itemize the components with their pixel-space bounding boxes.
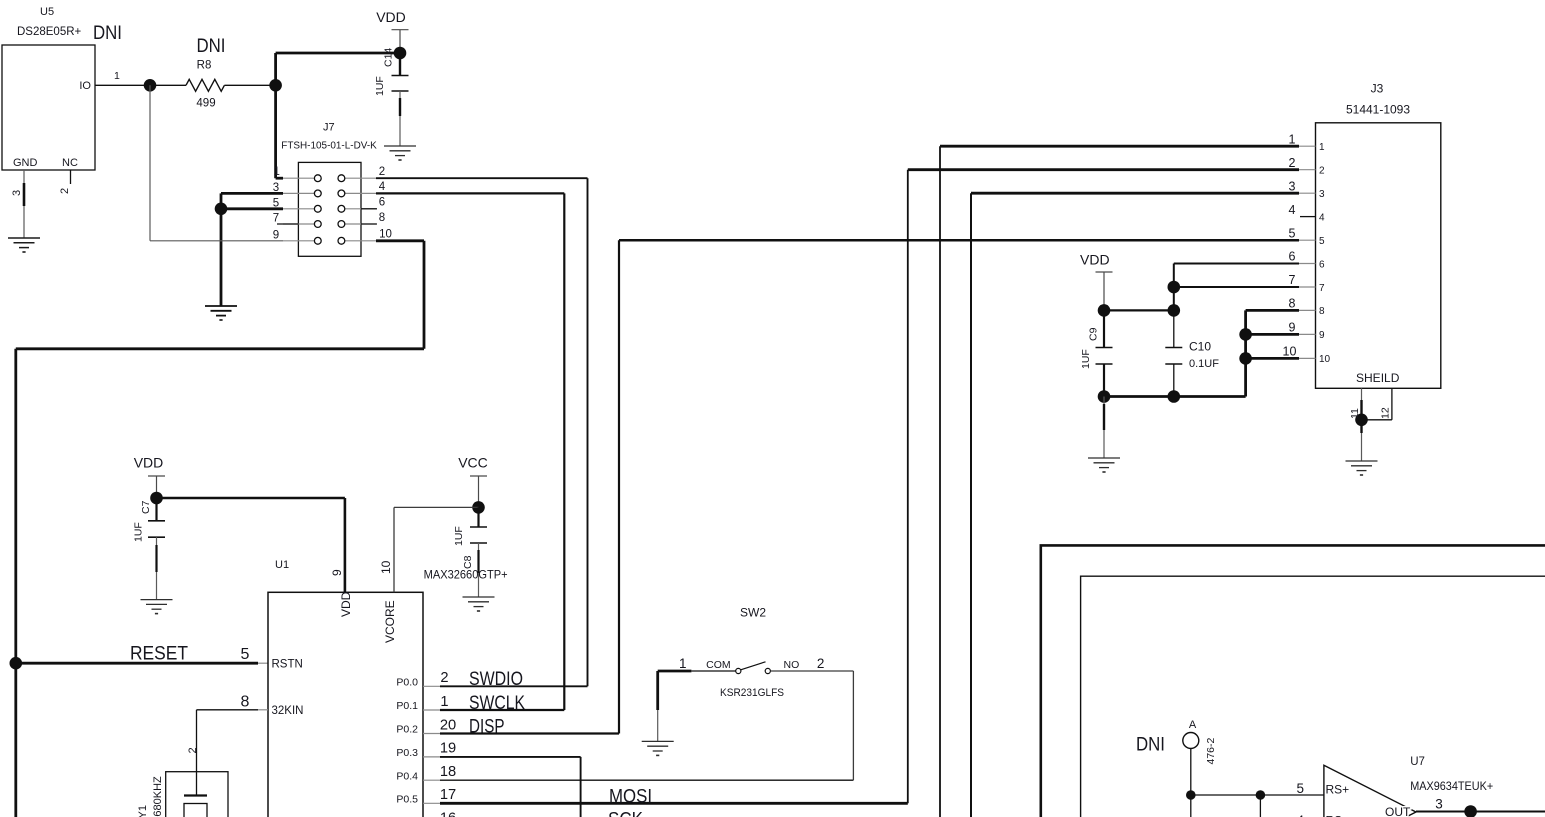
svg-text:RESET: RESET: [130, 643, 188, 664]
svg-text:SCK: SCK: [608, 810, 643, 817]
svg-text:GND: GND: [13, 157, 38, 169]
svg-text:12: 12: [1380, 407, 1392, 419]
svg-text:5: 5: [241, 646, 250, 663]
svg-text:1: 1: [114, 70, 120, 82]
svg-text:11: 11: [1349, 408, 1361, 419]
svg-text:2: 2: [1289, 156, 1296, 170]
svg-text:9: 9: [1319, 330, 1325, 341]
svg-text:10: 10: [1283, 345, 1297, 359]
svg-text:NO: NO: [784, 659, 800, 671]
svg-text:7: 7: [273, 213, 279, 225]
svg-text:RS-: RS-: [1326, 814, 1347, 817]
svg-text:KSR231GLFS: KSR231GLFS: [720, 687, 784, 699]
svg-text:P0.5: P0.5: [396, 794, 418, 806]
svg-text:0.1UF: 0.1UF: [1189, 358, 1219, 370]
svg-text:6: 6: [1289, 250, 1296, 264]
svg-text:20: 20: [440, 717, 456, 733]
svg-text:SWDIO: SWDIO: [469, 669, 523, 690]
svg-text:1UF: 1UF: [1080, 349, 1092, 369]
svg-text:U5: U5: [40, 6, 54, 18]
svg-text:C9: C9: [1088, 327, 1100, 341]
svg-text:1UF: 1UF: [453, 526, 465, 546]
svg-text:9: 9: [1289, 321, 1296, 335]
svg-text:COM: COM: [706, 659, 731, 671]
svg-text:VCC: VCC: [458, 455, 488, 471]
svg-text:3: 3: [1289, 179, 1296, 193]
svg-text:1: 1: [273, 166, 279, 178]
svg-text:2: 2: [59, 188, 71, 194]
svg-text:1: 1: [440, 694, 448, 710]
svg-text:10: 10: [379, 560, 393, 574]
svg-text:VDD: VDD: [339, 591, 353, 617]
svg-text:4: 4: [1319, 212, 1325, 223]
svg-text:DISP: DISP: [469, 716, 505, 737]
svg-text:OUT: OUT: [1385, 805, 1411, 817]
svg-text:2: 2: [817, 656, 825, 671]
svg-text:1: 1: [679, 656, 687, 671]
svg-text:3: 3: [1319, 189, 1325, 200]
svg-text:499: 499: [196, 98, 215, 110]
svg-text:3: 3: [1435, 797, 1443, 812]
svg-text:P0.2: P0.2: [396, 724, 418, 736]
svg-text:VCORE: VCORE: [383, 600, 397, 643]
svg-text:4: 4: [379, 181, 386, 193]
svg-text:RS+: RS+: [1326, 782, 1350, 796]
svg-text:A: A: [1189, 719, 1197, 731]
svg-text:2: 2: [379, 166, 385, 178]
svg-text:2: 2: [187, 747, 199, 753]
svg-text:8: 8: [1289, 297, 1296, 311]
svg-text:1: 1: [1289, 132, 1296, 146]
svg-text:32KIN: 32KIN: [272, 705, 304, 717]
svg-text:U7: U7: [1410, 756, 1425, 768]
svg-text:17: 17: [440, 787, 456, 803]
svg-text:51441-1093: 51441-1093: [1346, 103, 1410, 117]
svg-text:32.7680KHZ: 32.7680KHZ: [152, 776, 164, 817]
svg-text:7: 7: [1319, 283, 1325, 294]
svg-text:P0.3: P0.3: [396, 747, 418, 759]
svg-text:5: 5: [1319, 236, 1325, 247]
svg-text:8: 8: [241, 694, 250, 711]
svg-text:5: 5: [273, 197, 279, 209]
svg-text:DS28E05R+: DS28E05R+: [17, 26, 82, 38]
svg-text:16: 16: [440, 811, 456, 817]
svg-text:C14: C14: [383, 48, 395, 67]
svg-text:VDD: VDD: [376, 9, 406, 25]
svg-text:C7: C7: [140, 500, 152, 514]
svg-text:DNI: DNI: [1136, 735, 1165, 756]
svg-text:8: 8: [379, 212, 385, 224]
svg-text:1UF: 1UF: [374, 76, 386, 96]
svg-text:8: 8: [1319, 306, 1325, 317]
svg-text:18: 18: [440, 764, 456, 780]
svg-text:P0.4: P0.4: [396, 770, 418, 782]
svg-text:Y1: Y1: [137, 805, 149, 817]
svg-text:MAX32660GTP+: MAX32660GTP+: [424, 568, 508, 582]
svg-text:6: 6: [1319, 259, 1325, 270]
svg-text:SW2: SW2: [740, 605, 766, 619]
svg-text:1: 1: [1319, 142, 1325, 153]
svg-text:P0.1: P0.1: [396, 700, 418, 712]
svg-text:J7: J7: [323, 122, 335, 134]
svg-text:SWCLK: SWCLK: [469, 693, 525, 714]
svg-text:IO: IO: [79, 80, 91, 92]
svg-text:9: 9: [330, 569, 344, 576]
svg-text:U1: U1: [275, 559, 289, 571]
svg-text:DNI: DNI: [197, 36, 226, 57]
svg-text:DNI: DNI: [93, 23, 122, 44]
svg-text:C10: C10: [1189, 340, 1211, 354]
svg-text:3: 3: [273, 182, 279, 194]
svg-text:19: 19: [440, 741, 456, 757]
svg-text:R8: R8: [197, 60, 212, 72]
svg-text:2: 2: [440, 670, 448, 686]
svg-text:1UF: 1UF: [133, 522, 145, 542]
svg-text:NC: NC: [62, 157, 78, 169]
svg-text:9: 9: [273, 229, 279, 241]
svg-text:10: 10: [379, 229, 392, 241]
svg-text:VDD: VDD: [1080, 252, 1110, 268]
svg-text:7: 7: [1289, 273, 1296, 287]
svg-text:5: 5: [1296, 781, 1304, 796]
svg-text:J3: J3: [1371, 82, 1384, 96]
svg-text:FTSH-105-01-L-DV-K: FTSH-105-01-L-DV-K: [281, 140, 377, 151]
svg-text:6: 6: [379, 197, 385, 209]
svg-text:4: 4: [1296, 813, 1304, 817]
svg-text:4: 4: [1289, 203, 1296, 217]
svg-text:3: 3: [11, 190, 23, 196]
svg-text:2: 2: [1319, 166, 1325, 177]
svg-text:476-2: 476-2: [1205, 737, 1217, 764]
svg-text:MOSI: MOSI: [609, 787, 652, 808]
svg-text:P0.0: P0.0: [396, 677, 418, 689]
svg-text:10: 10: [1319, 354, 1331, 365]
svg-text:VDD: VDD: [134, 455, 164, 471]
svg-text:SHEILD: SHEILD: [1356, 371, 1400, 385]
svg-text:5: 5: [1289, 226, 1296, 240]
svg-text:MAX9634TEUK+: MAX9634TEUK+: [1410, 780, 1493, 793]
svg-text:RSTN: RSTN: [272, 659, 303, 671]
